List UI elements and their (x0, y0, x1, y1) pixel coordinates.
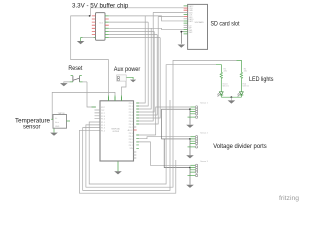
svg-text:633 nm: 633 nm (243, 86, 250, 88)
wire: SD pin4 to bundle V7 (153, 11, 183, 13)
U2 top pins green stubs (109, 97, 122, 101)
green leads on MCU right pins (136, 103, 139, 124)
wire: dark ground bus port1 junction to port2 junction (162, 109, 190, 139)
U2 right pin name labels (128, 103, 134, 150)
wire: aux power pin2 route to MCU top pin3 (122, 80, 127, 96)
wire green lead into port1 circle1 (191, 106, 196, 108)
svg-text:DAT1: DAT1 (189, 20, 194, 23)
wire green: LED1 to ground rail (220, 95, 222, 97)
wire: buffer p5r jog to SD pin10 (109, 28, 184, 29)
junction: buffer pin1 node (89, 15, 91, 17)
wire: long route L2 MCU left pin y124.9 to LED2 feed (86, 60, 237, 187)
svg-text:P1.1: P1.1 (101, 122, 105, 124)
ground: under buffer chip (77, 38, 96, 45)
svg-text:Sensor 3: Sensor 3 (200, 160, 208, 163)
svg-text:P3.2: P3.2 (129, 127, 133, 129)
wire: SD pin2 to buffer pin1 (net over top) (91, 8, 184, 16)
svg-text:SH2: SH2 (189, 32, 193, 34)
wire green: R1 to LED1 (220, 80, 222, 92)
U2 left pin name labels (101, 107, 106, 132)
svg-text:P3.6: P3.6 (129, 142, 133, 144)
wire green: aux power pin1 to ground (119, 77, 133, 79)
svg-text:GND: GND (55, 126, 60, 128)
svg-text:LED lights: LED lights (249, 77, 274, 83)
wire: MCU p141.9 to port3 circle1 (136, 142, 190, 165)
U3 right pin green (67, 120, 71, 122)
wire: bundle V3 down to MCU right pin y109 (136, 28, 151, 109)
wire: MCU p135 up-over to port1 circle1 (136, 107, 190, 135)
ground: port 3 (186, 185, 194, 188)
wire: bundle V4 down to MCU right pin y112 (136, 31, 154, 112)
svg-text:Aux power: Aux power (114, 67, 141, 73)
green lead port2 c1 (191, 136, 196, 138)
connector P2: sensor 2 port (188, 131, 208, 155)
wire: reset right contact to net (83, 81, 88, 83)
U1 left pins (red) (92, 16, 96, 35)
svg-text:P1.0: P1.0 (101, 119, 105, 121)
wire: MCU p138.7 to port2 circle1 (136, 137, 190, 139)
ground: port 2 (186, 155, 194, 158)
LED1 symbol (218, 92, 224, 97)
wire: reset net down to MCU left pin y107 (87, 82, 96, 107)
svg-text:Vout: Vout (55, 121, 59, 124)
svg-text:Temperature: Temperature (15, 118, 51, 124)
wire: bundle V1 down to MCU right pin y103 (136, 16, 145, 103)
svg-text:sensor: sensor (23, 125, 41, 131)
ground: aux power (130, 80, 136, 83)
wire: buffer p8r to bundle V6 (109, 37, 160, 39)
svg-text:Reset: Reset (68, 66, 82, 72)
wire: bundle V7 down to MCU right pin y121 (136, 12, 153, 121)
svg-text:P1.4: P1.4 (101, 130, 105, 132)
svg-text:SD card slot: SD card slot (211, 22, 240, 28)
wire: buffer p1r jog to SD pin8 (109, 16, 184, 21)
connector J2: aux power (117, 75, 127, 81)
svg-text:AVCC: AVCC (128, 129, 134, 132)
wire: buffer p7r to bundle V5 (109, 34, 157, 36)
wire: dark ground bus port2 junction to port3 junction (164, 139, 190, 168)
svg-text:P2.4: P2.4 (129, 115, 133, 117)
wire: SD pin6 to bundle V8 (158, 16, 183, 18)
svg-text:P1.2: P1.2 (101, 125, 105, 127)
svg-text:P3.4: P3.4 (129, 136, 133, 138)
wire: long route L4 MCU left pin y130.3 to port3 c5 (79, 130, 175, 193)
svg-text:MSP430: MSP430 (112, 129, 121, 131)
green lead port3 c1 (191, 164, 196, 166)
svg-text:P2.0: P2.0 (129, 103, 133, 105)
U2 right pin red stub (134, 129, 137, 131)
svg-text:565 nm: 565 nm (223, 86, 230, 88)
wire: buffer p6r to bundle V4 (109, 30, 154, 32)
green lead MCU top pin3 (121, 95, 123, 100)
U1 right pins (green/red) (105, 16, 109, 38)
wire: long route L3 MCU left pin y127.6 up right side (83, 100, 170, 190)
wire: bundle V5 down to MCU right pin y115 (136, 35, 157, 116)
wire: buffer p3r to bundle V2 (109, 21, 148, 23)
svg-text:P3.7: P3.7 (129, 145, 133, 147)
svg-text:Sensor 2: Sensor 2 (200, 131, 208, 134)
wire: bundle V8 down to MCU right pin y124 (136, 17, 158, 124)
svg-text:fritzing: fritzing (279, 196, 299, 202)
ground: reset button (60, 82, 70, 86)
pushbutton S1: reset (70, 76, 87, 82)
wire: long route L1 MCU left pin y122 around bottom to LED1 feed (89, 65, 216, 184)
svg-text:3.3V - 5V buffer chip: 3.3V - 5V buffer chip (72, 2, 129, 9)
wire green: LED1 feed top (216, 65, 221, 73)
J1 pin name labels (189, 5, 194, 34)
connector J1: SD card slot body (188, 4, 208, 49)
svg-text:SDCARD: SDCARD (195, 21, 205, 24)
wire green: LED2 to ground rail (240, 95, 242, 97)
svg-text:TMP36: TMP36 (58, 113, 66, 115)
wire: bundle V6 down to MCU right pin y118 (136, 38, 160, 118)
IC U1: 3.3V-5V buffer chip body (96, 13, 106, 41)
wire green: LED2 feed top (237, 60, 242, 72)
sensor U3: TMP36 body (53, 115, 67, 129)
svg-text:P3.3: P3.3 (129, 133, 133, 135)
svg-text:P2.2: P2.2 (129, 109, 133, 111)
svg-text:220: 220 (224, 70, 227, 72)
svg-text:220: 220 (244, 70, 247, 72)
IC U2: microcontroller body (100, 101, 134, 161)
green lead MCU top pin2 (114, 95, 116, 100)
svg-text:P2.1: P2.1 (129, 106, 133, 108)
LED2 symbol (238, 92, 244, 97)
svg-text:P3.5: P3.5 (129, 139, 133, 141)
wire: buffer pin1 left then down to MCU top pin1 (71, 16, 109, 96)
resistor R1 (green zigzag) (220, 72, 222, 79)
svg-text:P2.7: P2.7 (101, 113, 105, 115)
wire: temperature sensor up-over to MCU top pin2 (52, 92, 115, 119)
U2 left pin stubs (95, 110, 101, 119)
green stub leads MCU lower right pins (136, 135, 139, 149)
svg-text:Sensor 1: Sensor 1 (200, 102, 208, 105)
svg-text:P3.1: P3.1 (129, 124, 133, 126)
svg-text:P2.5: P2.5 (129, 118, 133, 120)
svg-text:P1.3: P1.3 (101, 128, 105, 130)
wire green lead: MCU top pin1 (108, 95, 110, 100)
resistor R2 (green zigzag) (240, 72, 242, 79)
svg-text:P3.0: P3.0 (129, 121, 133, 123)
J1 left pins (184, 6, 188, 34)
ground: LED pair (221, 96, 241, 103)
U2 right pin stubs (134, 127, 137, 158)
U3 left pin green lead (51, 118, 53, 120)
svg-text:G2553: G2553 (113, 131, 120, 133)
svg-text:P2.3: P2.3 (129, 112, 133, 114)
ground: port 1 (186, 125, 194, 128)
connector P1: sensor 1 port (188, 102, 208, 125)
ground: MCU bottom (114, 161, 122, 174)
connector P3: sensor 3 port (188, 160, 208, 185)
wire green: R2 to LED2 (240, 80, 242, 92)
ground: temperature sensor (50, 128, 58, 136)
svg-text:P2.6: P2.6 (101, 116, 105, 118)
svg-text:Voltage divider ports: Voltage divider ports (213, 144, 267, 150)
green lead MCU left pin1 (92, 106, 96, 108)
wire: bundle V2 down to MCU right pin y106 (136, 22, 148, 106)
svg-text:Vs: Vs (55, 118, 57, 120)
ground: under SD card slot (178, 31, 186, 48)
